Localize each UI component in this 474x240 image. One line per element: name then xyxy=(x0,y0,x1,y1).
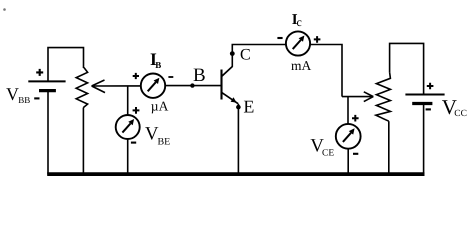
svg-text:BE: BE xyxy=(158,137,171,148)
wire emitter to rail xyxy=(237,104,239,175)
wire junction down to voltmeter VCE xyxy=(347,97,349,125)
rheostat R2 wiper arrow xyxy=(364,92,374,102)
svg-text:B: B xyxy=(155,60,161,70)
label - (VBE) xyxy=(131,142,136,144)
battery VCC xyxy=(405,95,444,104)
label + (IB) xyxy=(133,73,139,79)
wire IB to transistor base xyxy=(165,85,221,87)
label - (IC) xyxy=(277,37,282,39)
svg-text:V: V xyxy=(6,84,19,104)
ammeter IC xyxy=(286,31,310,55)
label + (IC) xyxy=(314,36,321,43)
voltmeter VBE xyxy=(116,115,140,139)
svg-text:BB: BB xyxy=(18,95,30,105)
node E xyxy=(236,105,241,110)
wire wiper to ammeter IB xyxy=(92,85,141,87)
label - (VBB negative) xyxy=(34,97,39,99)
svg-text:E: E xyxy=(243,97,254,117)
svg-text:c: c xyxy=(297,15,302,29)
svg-text:mA: mA xyxy=(291,58,312,73)
wire R2 bottom to rail xyxy=(388,121,390,174)
svg-text:µA: µA xyxy=(151,98,169,113)
wire R2 top to VCC+ bracket xyxy=(390,43,424,94)
wire VBB+ top to rheostat R1 top xyxy=(48,48,84,82)
wire junction to rheostat R2 wiper xyxy=(342,96,373,98)
svg-text:B: B xyxy=(193,65,206,86)
wire collector to ammeter IC xyxy=(232,45,286,67)
wire VCC- bottom to rail xyxy=(423,104,425,175)
wire IC to right junction xyxy=(310,45,342,97)
transistor Q1 xyxy=(222,66,239,104)
svg-text:CC: CC xyxy=(454,109,467,119)
wire junction down to voltmeter VBE xyxy=(127,86,129,115)
node B xyxy=(190,83,194,87)
ammeter IB xyxy=(141,74,165,98)
label - (VCE) xyxy=(353,153,358,155)
battery VBB xyxy=(28,81,65,90)
label - (IB) xyxy=(168,76,173,78)
rheostat R2 xyxy=(376,72,391,121)
label + (VCE) xyxy=(352,115,359,122)
svg-text:CE: CE xyxy=(322,149,334,159)
node C xyxy=(230,51,235,56)
wire R1 bottom to rail xyxy=(82,108,84,175)
label + (VCC) xyxy=(427,83,434,90)
wire VBB- bottom to rail xyxy=(47,91,49,175)
wire VBE bottom to rail xyxy=(127,139,129,175)
rheostat R1 xyxy=(76,68,87,108)
wire bottom rail xyxy=(47,172,424,176)
label - (VCC) xyxy=(426,108,431,110)
wire VCE bottom to rail xyxy=(347,149,349,175)
label + (VBE) xyxy=(133,107,140,114)
voltmeter VCE xyxy=(336,124,361,149)
label + (VBB positive) xyxy=(36,69,43,76)
rheostat R1 wiper arrow xyxy=(92,80,105,93)
svg-text:C: C xyxy=(240,47,251,64)
